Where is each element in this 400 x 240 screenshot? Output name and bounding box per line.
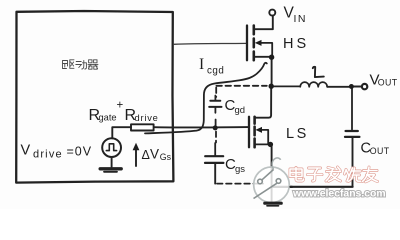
svg-text:V: V [150,147,159,162]
svg-text:OUT: OUT [378,77,398,87]
svg-text:I: I [199,56,204,73]
svg-text:Δ: Δ [142,148,150,162]
svg-text:drive: drive [135,113,159,123]
svg-text:Gs: Gs [160,152,172,162]
svg-text:IN: IN [294,13,308,25]
svg-text:drive: drive [33,149,63,161]
svg-text:HS: HS [283,36,309,52]
svg-text:cgd: cgd [207,66,224,77]
svg-text:gate: gate [99,113,117,123]
svg-text:www.elecfans.com: www.elecfans.com [292,189,386,200]
svg-text:=0V: =0V [67,145,93,159]
svg-text:OUT: OUT [370,146,390,156]
svg-text:gs: gs [235,164,245,175]
svg-text:gd: gd [235,105,246,116]
svg-text:LS: LS [286,126,309,142]
svg-text:+: + [117,100,124,112]
svg-text:V: V [21,143,31,159]
